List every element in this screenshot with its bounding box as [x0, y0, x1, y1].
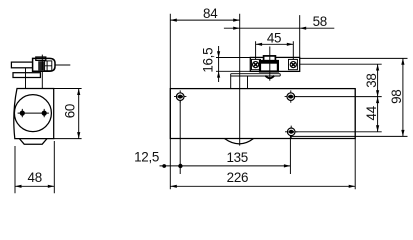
svg-text:38: 38: [364, 73, 379, 87]
svg-text:60: 60: [62, 104, 77, 118]
svg-text:44: 44: [364, 105, 379, 120]
svg-text:48: 48: [28, 170, 42, 185]
svg-text:12,5: 12,5: [134, 150, 159, 165]
svg-text:98: 98: [389, 90, 404, 104]
svg-text:45: 45: [267, 30, 281, 45]
svg-text:226: 226: [227, 170, 248, 185]
svg-text:16,5: 16,5: [200, 48, 215, 73]
svg-text:135: 135: [226, 150, 247, 165]
svg-text:84: 84: [203, 6, 218, 21]
svg-text:58: 58: [313, 14, 327, 29]
